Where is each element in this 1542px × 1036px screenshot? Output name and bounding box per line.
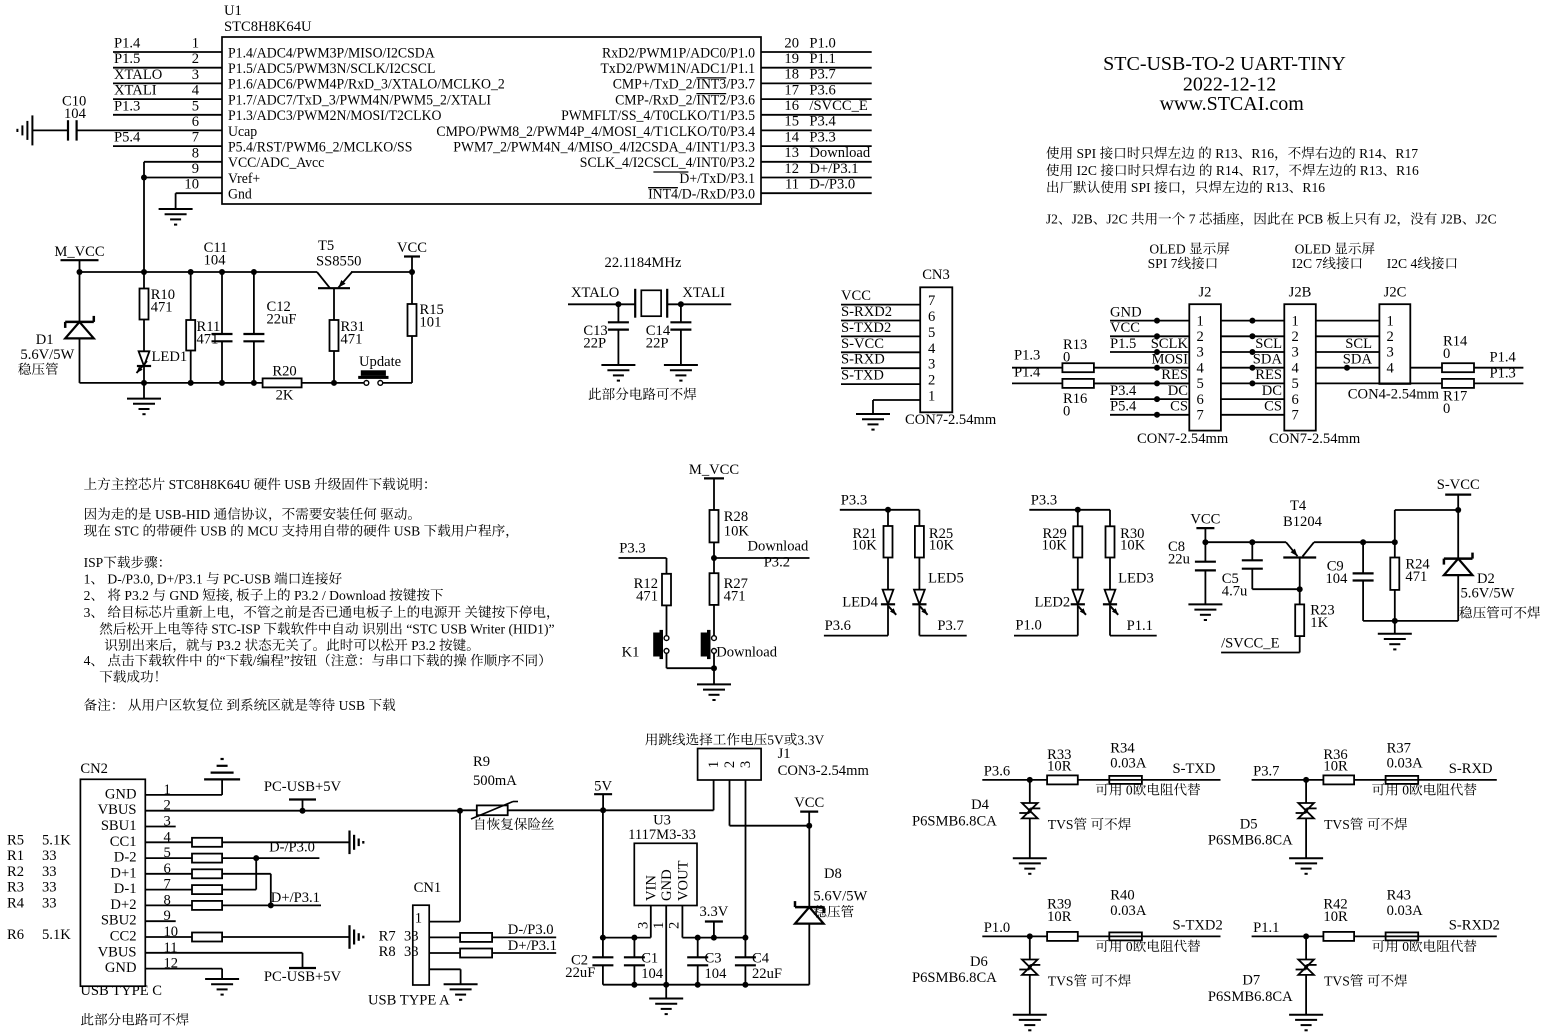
svg-text:“: “ [220,653,226,668]
svg-text:P1.4: P1.4 [114,36,141,52]
svg-text:www.STCAI.com: www.STCAI.com [1160,93,1305,115]
svg-text:VOUT: VOUT [675,860,691,901]
node S-TXD2 [1173,918,1223,934]
capacitor C1 104 [624,938,664,985]
svg-text:STC8H8K64U: STC8H8K64U [169,477,251,492]
svg-text:S-RXD: S-RXD [1449,761,1493,777]
svg-text:104: 104 [204,253,227,269]
svg-text:Update: Update [359,354,401,370]
capacitor C13 22P [583,304,629,365]
svg-text:1: 1 [192,36,199,52]
note text J2 shared socket [1046,212,1497,227]
svg-text:XTALO: XTALO [571,285,619,301]
svg-text:7: 7 [1197,408,1204,424]
svg-text:OLED: OLED [1149,241,1185,256]
LED LED1 [137,320,188,383]
note text SPI/I2C resistor options [1046,146,1419,195]
resistor body R1 (D-2) [145,854,319,863]
svg-text:USB TYPE C: USB TYPE C [80,983,162,999]
svg-text:1117M3-33: 1117M3-33 [628,827,696,843]
svg-text:J2: J2 [1199,285,1212,301]
wire CN3 pin 1 to ground [873,400,920,414]
svg-text:D-/P3.0: D-/P3.0 [269,840,315,856]
svg-text:SBU2: SBU2 [101,913,137,929]
svg-text:GND: GND [105,960,137,976]
svg-text:22u: 22u [1168,552,1191,568]
svg-text:S-TXD: S-TXD [1173,761,1216,777]
svg-text:P3.7: P3.7 [937,618,963,634]
svg-text:J2B: J2B [1289,285,1312,301]
svg-text:P6SMB6.8CA: P6SMB6.8CA [1208,833,1293,849]
svg-text:R8: R8 [379,944,396,960]
wire J1 pin 2 to VCC [730,780,813,829]
svg-text:/SVCC_E: /SVCC_E [1221,636,1279,652]
svg-text:471: 471 [636,589,658,605]
svg-text:C4: C4 [752,951,770,967]
power symbol M_VCC (download section) [689,462,739,510]
wire net VCC row (J2 pin2) [1110,320,1379,339]
note text jumper voltage select [645,732,824,747]
svg-text:R20: R20 [272,363,296,379]
svg-text:1: 1 [651,922,667,929]
wire CN1 pin 1 VBUS [429,811,460,922]
svg-text:Download: Download [809,145,871,161]
svg-text:5: 5 [1197,376,1204,392]
resistor R31 471 [330,319,365,383]
resistor R36 10R [1323,747,1354,785]
node /SVCC_E [1221,636,1300,653]
node Download/P3.2 [711,539,810,571]
svg-text:3: 3 [636,922,652,929]
svg-text:3.3V: 3.3V [797,732,824,747]
resistor R6 5.1K [7,927,71,943]
svg-text:7: 7 [1189,212,1196,227]
svg-text:ISP: ISP [84,555,104,570]
svg-text:P1.1: P1.1 [1253,920,1279,936]
svg-text:1: 1 [1197,313,1204,329]
svg-text:0: 0 [1402,939,1409,954]
wire U1 pin 16 (/SVCC_E) [761,98,872,115]
resistor R23 1K [1295,589,1334,636]
connector CN1 USB TYPE A [368,880,450,1009]
svg-text:18: 18 [784,67,799,83]
svg-text:6: 6 [192,114,199,130]
svg-text:Download: Download [716,645,778,661]
svg-text:22uF: 22uF [565,965,595,981]
resistor R4 33 [7,896,57,912]
svg-text:P6SMB6.8CA: P6SMB6.8CA [1208,989,1293,1005]
svg-text:P1.0: P1.0 [1015,618,1041,634]
svg-text:10K: 10K [1042,537,1068,553]
svg-text:I2C 4: I2C 4 [1387,256,1418,271]
svg-text:P1.0: P1.0 [984,920,1010,936]
svg-text:P6SMB6.8CA: P6SMB6.8CA [912,970,997,986]
svg-text:VCC: VCC [1110,320,1140,336]
svg-text:LED5: LED5 [928,571,964,587]
svg-text:RES: RES [1161,367,1188,383]
resistor body R6 (CC2) [145,933,349,942]
svg-text:CMP-/RxD_2/INT2/P3.6: CMP-/RxD_2/INT2/P3.6 [615,92,755,108]
svg-text:2: 2 [192,51,199,67]
note text OLED SPI header [1148,241,1230,271]
capacitor C14 22P [646,304,692,365]
ground (D7) [1289,1015,1323,1031]
svg-text:STC-USB-TO-2 UART-TINY: STC-USB-TO-2 UART-TINY [1103,53,1346,75]
svg-text:R13: R13 [1360,163,1383,178]
resistor R33 10R [1047,747,1078,785]
wire CN3 pin 3 (S-RXD) [841,352,920,369]
wire VOUT 3.3V rail [682,935,748,941]
ground (CC2, sideways) [350,925,364,949]
svg-text:1: 1 [84,571,91,586]
note text 0-ohm replace (R40) [1096,939,1200,954]
resistor R25 10K [915,526,955,558]
ground (C14) [664,365,698,381]
svg-text:STC8H8K64U: STC8H8K64U [224,19,312,35]
svg-text:SS8550: SS8550 [316,254,361,270]
wire CN3 pin 7 (VCC) [841,288,920,305]
resistor R3 33 [7,880,57,896]
svg-text:R16: R16 [1396,163,1419,178]
svg-text:22P: 22P [646,336,669,352]
wire CN3 pin 2 (S-TXD) [841,368,920,385]
svg-text:104: 104 [64,106,87,122]
svg-text:J2C: J2C [1384,285,1407,301]
transistor T4 B1204 [1283,498,1323,589]
svg-text:22uF: 22uF [752,966,782,982]
node D+/P3.1 (CN2) [271,890,320,906]
svg-text:S-TXD: S-TXD [841,368,884,384]
svg-text:4: 4 [192,83,200,99]
svg-text:S-TXD2: S-TXD2 [841,320,891,336]
resistor R16 0 [1012,364,1189,419]
svg-text:PCB: PCB [1298,212,1324,227]
svg-text:19: 19 [784,51,799,67]
svg-text:10: 10 [184,177,199,193]
svg-text:R7: R7 [379,929,396,945]
svg-text:B1204: B1204 [1283,514,1323,530]
connector CN2 USB TYPE C [80,761,178,999]
connector J1 CON3-2.54mm [698,746,870,780]
resistor body R2 (D+1) [145,869,270,905]
svg-text:33: 33 [42,864,57,880]
svg-text:4: 4 [84,653,91,668]
svg-text:VCC: VCC [841,288,871,304]
ground (U1 pin 10) [159,209,193,225]
svg-text:INT4/D-/RxD/P3.0: INT4/D-/RxD/P3.0 [648,187,755,203]
svg-text:R2: R2 [7,864,24,880]
svg-text:R6: R6 [7,927,24,943]
resistor R5 5.1K [7,832,71,848]
svg-text:DC: DC [1168,383,1188,399]
svg-text:P1.5: P1.5 [1110,336,1136,352]
note text TVS optional (D4) [1048,817,1131,832]
svg-text:2: 2 [722,761,738,768]
wire net DC row (J2 pin6) [1110,383,1284,402]
resistor R17 0 [1442,365,1523,417]
svg-text:9: 9 [192,161,199,177]
svg-text:0: 0 [1063,404,1070,420]
svg-text:6: 6 [1197,392,1204,408]
pushbutton Update [358,354,401,385]
wire regulator bottom rail [603,982,809,988]
wire U1 pin 1 (P1.4) [113,36,222,53]
LED LED2 [1035,558,1086,636]
note text USB TYPE C optional [81,1013,189,1026]
wire U1 pin 17 (P3.6) [761,82,872,99]
node P3.3 (LED2/3) [1029,493,1110,527]
svg-text:OLED: OLED [1295,241,1331,256]
svg-text:3: 3 [738,761,754,768]
svg-text:CON7-2.54mm: CON7-2.54mm [1269,431,1361,447]
svg-text:3: 3 [1387,345,1394,361]
svg-text:D+1: D+1 [110,865,136,881]
wire power section bottom [80,380,413,386]
IC U1 STC8H8K64U MCU [222,3,761,204]
LED LED4 [842,558,896,636]
svg-text:2: 2 [667,922,683,929]
wire net SCLK/SCL row (J2 pin3) [1110,336,1379,355]
svg-text:22P: 22P [583,336,606,352]
svg-text:10K: 10K [1120,537,1146,553]
svg-text:0: 0 [1443,346,1450,362]
svg-text:C3: C3 [705,951,722,967]
zener diode D1 5.6V/5W [18,272,94,383]
node P1.0 [1014,618,1078,636]
ground (left of C10) [17,115,68,145]
svg-text:RxD2/PWM1P/ADC0/P1.0: RxD2/PWM1P/ADC0/P1.0 [602,45,755,61]
svg-text:P1.1: P1.1 [1127,618,1153,634]
svg-text:P3.6: P3.6 [984,763,1010,779]
crystal Y1 22.1184MHz [605,255,682,318]
svg-text:SCL: SCL [1345,336,1372,352]
svg-text:5: 5 [192,98,199,114]
svg-text:P1.1: P1.1 [809,51,835,67]
svg-text:11: 11 [785,177,799,193]
svg-text:/SVCC_E: /SVCC_E [809,98,867,114]
wire net MOSI/SDA row (J2 pin4) [1094,352,1380,371]
svg-text:C1: C1 [641,951,658,967]
note text crystal optional [589,388,697,401]
svg-text:CON7-2.54mm: CON7-2.54mm [1137,431,1229,447]
svg-text:VBUS: VBUS [98,802,137,818]
svg-text:5.6V/5W: 5.6V/5W [1461,586,1515,602]
capacitor C3 104 [687,938,727,985]
ground (CN3 pin 1) [856,414,890,430]
power symbol VCC (J1) [794,795,824,826]
wire net GND row (J2 pin1) [1110,304,1379,323]
svg-text:USB: USB [394,524,420,539]
wire U1 pin 8 VCC/ADC_Avcc [144,145,222,177]
svg-text:CON3-2.54mm: CON3-2.54mm [778,763,870,779]
svg-text:S-RXD: S-RXD [841,352,885,368]
LED LED5 [912,558,963,636]
svg-text:16: 16 [784,98,799,114]
svg-text:7: 7 [1292,408,1299,424]
svg-text:VCC: VCC [794,795,824,811]
svg-text:P3.2: P3.2 [217,638,242,653]
svg-text:104: 104 [1326,571,1349,587]
svg-text:0.03A: 0.03A [1110,756,1147,772]
svg-text:”: ” [284,653,290,668]
node P1.0 [982,920,1047,940]
svg-text:0.03A: 0.03A [1387,903,1424,919]
resistor body R4 (D+2) [145,901,321,910]
svg-text:2K: 2K [276,388,294,404]
svg-text:P1.3: P1.3 [1490,365,1516,381]
svg-text:15: 15 [784,114,799,130]
svg-text:1: 1 [1292,313,1299,329]
wire U1 pin 12 (D+/P3.1) [761,161,872,178]
ground (C13) [601,365,635,381]
node P3.6 [824,618,888,636]
svg-text:20: 20 [784,35,799,51]
node D-/P3.0 (CN2) [269,840,315,856]
svg-text:VCC: VCC [1190,511,1220,527]
wire U1 pin 5 (P1.3) [113,98,222,115]
svg-text:1K: 1K [1310,615,1328,631]
svg-text:SBU1: SBU1 [101,818,137,834]
svg-text:PC-USB+5V: PC-USB+5V [264,779,342,795]
note text I2C 4-wire header [1387,256,1457,271]
svg-text:J2B: J2B [1441,212,1462,227]
wire CN3 pin 5 (S-TXD2) [841,320,920,337]
svg-text:1: 1 [706,761,722,768]
svg-text:22uF: 22uF [267,312,297,328]
resistor R14 0 [1410,334,1523,373]
node S-RXD2 [1449,918,1500,934]
ground (T4 section) [1378,621,1412,650]
svg-text:4: 4 [1387,360,1395,376]
svg-text:R14: R14 [1359,146,1382,161]
power symbol PC-USB+5V (bottom, flipped) [264,968,342,985]
svg-text:P1.4/ADC4/PWM3P/MISO/I2CSDA: P1.4/ADC4/PWM3P/MISO/I2CSDA [228,45,435,61]
svg-text:12: 12 [784,161,799,177]
svg-text:P3.4: P3.4 [1110,383,1137,399]
svg-text:104: 104 [705,966,728,982]
svg-text:,: , [229,588,232,603]
svg-text:K1: K1 [622,645,640,661]
LED LED3 [1103,558,1154,636]
svg-text:D+/P3.1: D+/P3.1 [809,161,858,177]
svg-text:R37: R37 [1387,740,1411,756]
svg-text:M_VCC: M_VCC [54,244,104,260]
fuse R37 0.03A [1354,740,1497,784]
svg-text:CC2: CC2 [110,929,137,945]
svg-text:USB-HID: USB-HID [155,507,210,522]
svg-text:TVS: TVS [1324,817,1350,832]
svg-text:13: 13 [784,145,799,161]
svg-text:USB: USB [284,477,310,492]
capacitor C12 22uF [243,272,296,383]
ground (C8) [1188,604,1222,620]
note text 0-ohm replace (R34) [1096,783,1200,798]
node P3.7 [919,618,966,636]
svg-text:VIN: VIN [644,875,660,901]
svg-text:P1.5: P1.5 [114,51,140,67]
svg-text:CN3: CN3 [922,267,950,283]
wire U1 pin 20 (P1.0) [761,35,872,52]
wire CN2 pin 2 VBUS [145,808,463,814]
note text OLED I2C header [1292,241,1375,271]
title text [1103,53,1346,115]
ground (CN1) [444,984,478,1000]
wire U1 pin 9 Vref+ [141,161,222,272]
ground (D4) [1013,858,1047,874]
svg-text:P3.3: P3.3 [841,493,867,509]
resistor R20 2K [263,363,302,403]
note text TVS optional (D6) [1048,974,1131,989]
svg-text:PC-USB: PC-USB [223,571,271,586]
svg-text:P1.0: P1.0 [809,35,835,51]
svg-text:P1.3: P1.3 [1014,348,1040,364]
ground (D5) [1289,858,1323,874]
svg-text:2: 2 [1197,329,1204,345]
note text TVS optional (D7) [1324,974,1407,989]
svg-text:D5: D5 [1240,816,1258,832]
svg-text:0: 0 [1443,401,1450,417]
node S-TXD [1173,761,1216,777]
svg-text:10R: 10R [1047,759,1072,775]
transistor T5 SS8550 [316,238,361,320]
resistor R29 10K [1042,510,1083,558]
capacitor C11 104 [204,240,233,383]
svg-text:M_VCC: M_VCC [689,462,739,478]
svg-text:P3.3: P3.3 [809,129,835,145]
svg-text:4: 4 [928,341,936,357]
svg-text:P3.4: P3.4 [809,114,836,130]
node P3.6 [982,763,1047,783]
svg-text:D+2: D+2 [110,897,136,913]
svg-text:5.1K: 5.1K [42,927,71,943]
svg-text:CC1: CC1 [110,834,137,850]
svg-text:6: 6 [1292,392,1299,408]
wire net RES row (J2 pin5) [1094,367,1442,386]
TVS diode D5 P6SMB6.8CA [1208,780,1317,858]
capacitor C2 22uF [565,938,613,985]
wire T4 to S-VCC node [1314,507,1461,545]
pushbutton Download [701,605,778,671]
wire CN2 pin 1 GND [145,779,222,795]
svg-text:R4: R4 [7,896,25,912]
resistor R12 471 [634,574,671,606]
svg-text:D4: D4 [971,797,990,813]
svg-text:10K: 10K [929,538,955,554]
svg-text:D7: D7 [1242,973,1260,989]
svg-text:CMPO/PWM8_2/PWM4P_4/MOSI_4/T1C: CMPO/PWM8_2/PWM4P_4/MOSI_4/T1CLKO/T0/P3.… [436,124,755,140]
svg-text:0: 0 [1126,783,1133,798]
svg-text:8: 8 [192,145,199,161]
svg-text:P1.5/ADC5/PWM3N/SCLK/I2CSCL: P1.5/ADC5/PWM3N/SCLK/I2CSCL [228,61,435,77]
svg-text:PWM7_2/PWM4N_4/MISO_4/I2CSDA_4: PWM7_2/PWM4N_4/MISO_4/I2CSDA_4/INT1/P3.3 [453,139,755,155]
svg-text:TxD2/PWM1N/ADC1/P1.1: TxD2/PWM1N/ADC1/P1.1 [601,61,756,77]
svg-text:0: 0 [1063,350,1070,366]
svg-text:33: 33 [42,896,57,912]
wire U1 pin 7 (P5.4) [113,130,222,147]
svg-text:R1: R1 [7,848,24,864]
resistor R8 33 [379,944,557,960]
svg-text:R16: R16 [1251,146,1274,161]
wire CN1 pin 4 GND [429,969,460,984]
connector CN3 CON7-2.54mm [905,267,997,428]
wire CN2 pin 9 SBU2 [145,920,175,922]
wire net CS row (J2 pin7) [1110,399,1284,418]
svg-text:6: 6 [928,309,935,325]
resistor R11 471 [186,272,220,383]
svg-text:DC: DC [1262,383,1282,399]
svg-text:Vref+: Vref+ [228,171,260,187]
svg-text:“STC USB Writer (HID1)”: “STC USB Writer (HID1)” [406,622,554,638]
